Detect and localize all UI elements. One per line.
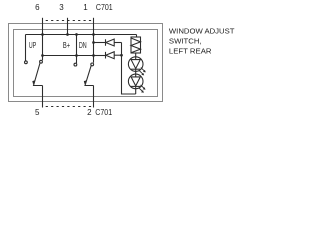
LED L1 anode stub [135, 69, 137, 77]
LED L2 bottom stub [135, 86, 137, 94]
node diode D1 tap [92, 41, 95, 44]
lever arrowheads [32, 80, 87, 84]
svg-text:2: 2 [87, 108, 92, 117]
svg-text:6: 6 [35, 3, 40, 12]
left lever arrowhead [32, 80, 35, 84]
LED L2 cathode bar [131, 85, 140, 87]
diode D2 wire left [94, 55, 106, 57]
diode D2 [106, 52, 115, 59]
right lever arrowhead [84, 80, 87, 84]
svg-text:C701: C701 [96, 3, 113, 12]
node x76/top bus [75, 33, 78, 36]
connector C701 top dashed line [43, 20, 94, 22]
wire pin 3 drop [67, 18, 69, 35]
right switch lever [85, 66, 94, 86]
wire pin 6 drop [42, 18, 44, 35]
LED L1 cathode bar [131, 68, 140, 70]
contact circle B [40, 60, 43, 63]
svg-text:3: 3 [59, 3, 64, 12]
diode D1 [106, 39, 115, 46]
junction dots [41, 33, 123, 57]
divider x76 [76, 35, 78, 56]
outer component box [9, 24, 163, 102]
node pin1/top bus [92, 33, 95, 36]
diode return wire down [122, 43, 136, 95]
svg-text:LEFT REAR: LEFT REAR [169, 46, 212, 55]
LED emission arrows [139, 68, 146, 93]
resistor R1 zigzag [131, 38, 141, 53]
svg-text:B+: B+ [63, 40, 70, 50]
pin 5 wire [42, 86, 44, 108]
diode D2 wire right [114, 54, 121, 56]
contact circle A [25, 61, 28, 64]
wire pin 1 drop [93, 18, 95, 35]
node bottom bus mid [75, 54, 78, 57]
diode D1 wire left [94, 42, 106, 44]
labels [29, 3, 113, 117]
LED L1 circle [128, 57, 143, 72]
LED L2 triangle [131, 77, 140, 86]
LED L2 arrows [141, 85, 145, 89]
svg-text:SWITCH,: SWITCH, [169, 37, 202, 46]
switch frame bottom bus [43, 55, 94, 57]
left switch lever [34, 63, 43, 86]
node pin6/top bus [41, 33, 44, 36]
contact circle D [91, 63, 94, 66]
svg-text:1: 1 [83, 3, 88, 12]
node diode join [120, 54, 123, 57]
svg-text:UP: UP [29, 40, 37, 50]
pin 2 wire [93, 86, 95, 108]
contact circle C [74, 63, 77, 66]
diode D1 wire right [114, 42, 121, 44]
svg-text:C701: C701 [95, 108, 112, 117]
resistor feed wire [136, 35, 138, 38]
stub above contact B [42, 56, 44, 61]
LED L1 arrows [141, 68, 145, 72]
svg-text:WINDOW ADJUST: WINDOW ADJUST [169, 27, 235, 36]
switch frame left edge [25, 35, 27, 61]
resistor R1 box [131, 37, 141, 53]
divider / pin6 line [42, 35, 44, 56]
node pin3/top bus [66, 33, 69, 36]
resistor to LED wire [135, 53, 137, 60]
right edge / pin1 line [93, 35, 95, 63]
switch frame top bus [26, 34, 137, 36]
node bottom bus left [41, 54, 44, 57]
LED L1 triangle [131, 60, 140, 69]
inner component box [14, 30, 158, 97]
stub above contact C [76, 56, 78, 64]
svg-text:DN: DN [79, 40, 87, 50]
svg-text:5: 5 [35, 108, 40, 117]
node bottom bus right [92, 54, 95, 57]
LED L2 circle [128, 74, 143, 89]
title text [169, 27, 235, 56]
bottom dashed line C701 [43, 106, 94, 108]
